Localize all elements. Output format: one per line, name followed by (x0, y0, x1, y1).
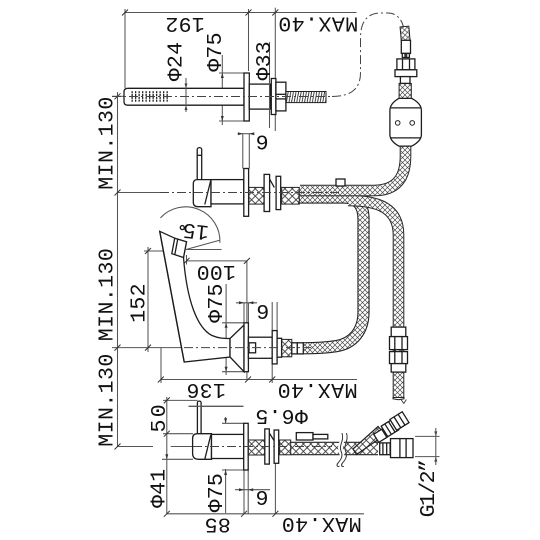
svg-text:152: 152 (127, 283, 151, 322)
svg-text:Φ33: Φ33 (253, 41, 277, 80)
svg-text:MIN.130: MIN.130 (96, 353, 120, 447)
svg-text:Φ75: Φ75 (204, 32, 228, 71)
svg-text:15: 15 (181, 216, 210, 243)
svg-text:Φ41: Φ41 (148, 469, 172, 508)
svg-text:Φ75: Φ75 (205, 473, 229, 512)
svg-text:MAX.40: MAX.40 (281, 511, 361, 535)
svg-text:MAX.40: MAX.40 (277, 377, 357, 401)
svg-text:9: 9 (256, 132, 269, 156)
svg-text:9: 9 (256, 302, 269, 326)
svg-text:100: 100 (196, 259, 235, 283)
svg-text:50: 50 (148, 402, 172, 432)
svg-text:MIN.130: MIN.130 (96, 96, 120, 190)
svg-text:9: 9 (256, 488, 269, 512)
svg-text:G1/2”: G1/2” (417, 460, 441, 517)
svg-text:192: 192 (165, 11, 204, 35)
svg-text:MIN.130: MIN.130 (96, 248, 120, 342)
svg-text:Φ75: Φ75 (205, 283, 229, 322)
svg-text:136: 136 (186, 377, 225, 401)
svg-text:MAX.40: MAX.40 (278, 11, 358, 35)
svg-text:85: 85 (204, 511, 230, 535)
svg-text:Φ24: Φ24 (164, 42, 188, 81)
svg-text:Φ6.5: Φ6.5 (255, 403, 308, 427)
